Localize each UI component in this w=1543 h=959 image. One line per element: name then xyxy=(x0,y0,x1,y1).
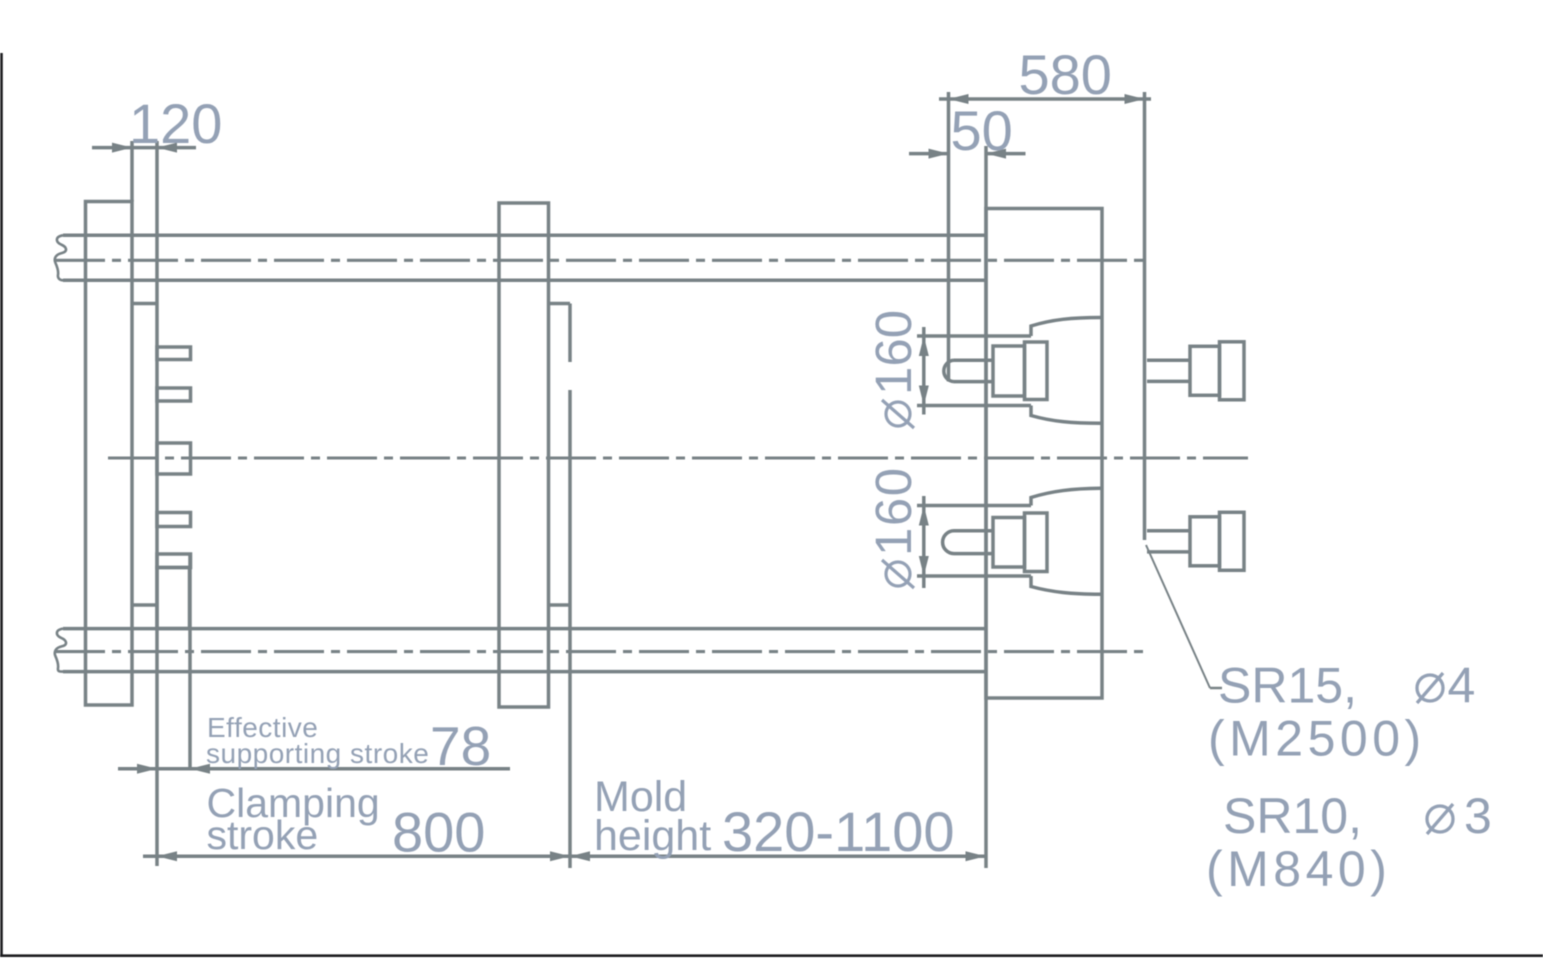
svg-text:4: 4 xyxy=(1448,658,1476,714)
svg-text:320-1100: 320-1100 xyxy=(722,800,955,863)
svg-text:stroke: stroke xyxy=(207,812,319,858)
svg-text:160: 160 xyxy=(865,310,922,395)
svg-text:SR15,: SR15, xyxy=(1218,658,1357,714)
svg-text:SR10,: SR10, xyxy=(1223,788,1362,844)
svg-text:160: 160 xyxy=(865,466,922,556)
svg-text:580: 580 xyxy=(1019,43,1112,106)
svg-text:78: 78 xyxy=(430,715,491,777)
svg-text:800: 800 xyxy=(392,801,485,864)
svg-text:120: 120 xyxy=(129,92,222,155)
svg-text:supporting stroke: supporting stroke xyxy=(206,738,429,769)
svg-text:(M840): (M840) xyxy=(1206,841,1391,897)
svg-text:3: 3 xyxy=(1464,788,1492,844)
svg-text:50: 50 xyxy=(951,99,1013,162)
svg-text:(M2500): (M2500) xyxy=(1208,711,1426,767)
svg-text:height: height xyxy=(594,812,711,860)
